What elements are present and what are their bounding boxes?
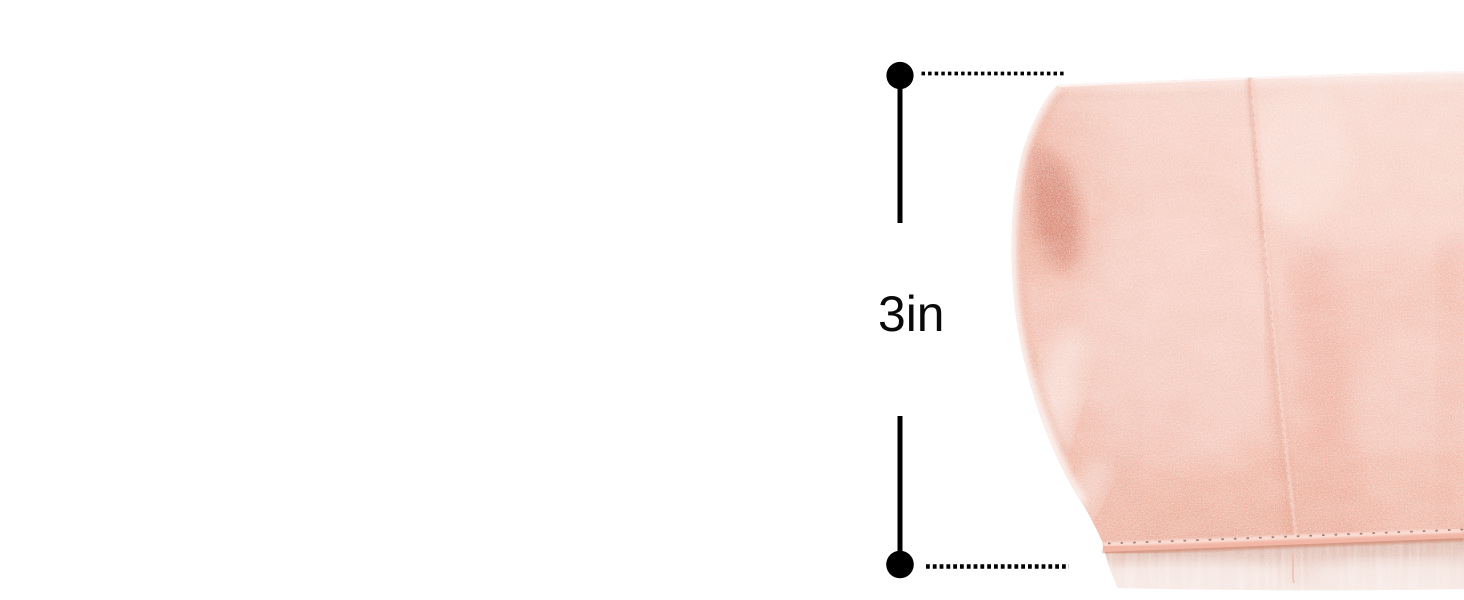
svg-text:3in: 3in xyxy=(878,286,944,342)
